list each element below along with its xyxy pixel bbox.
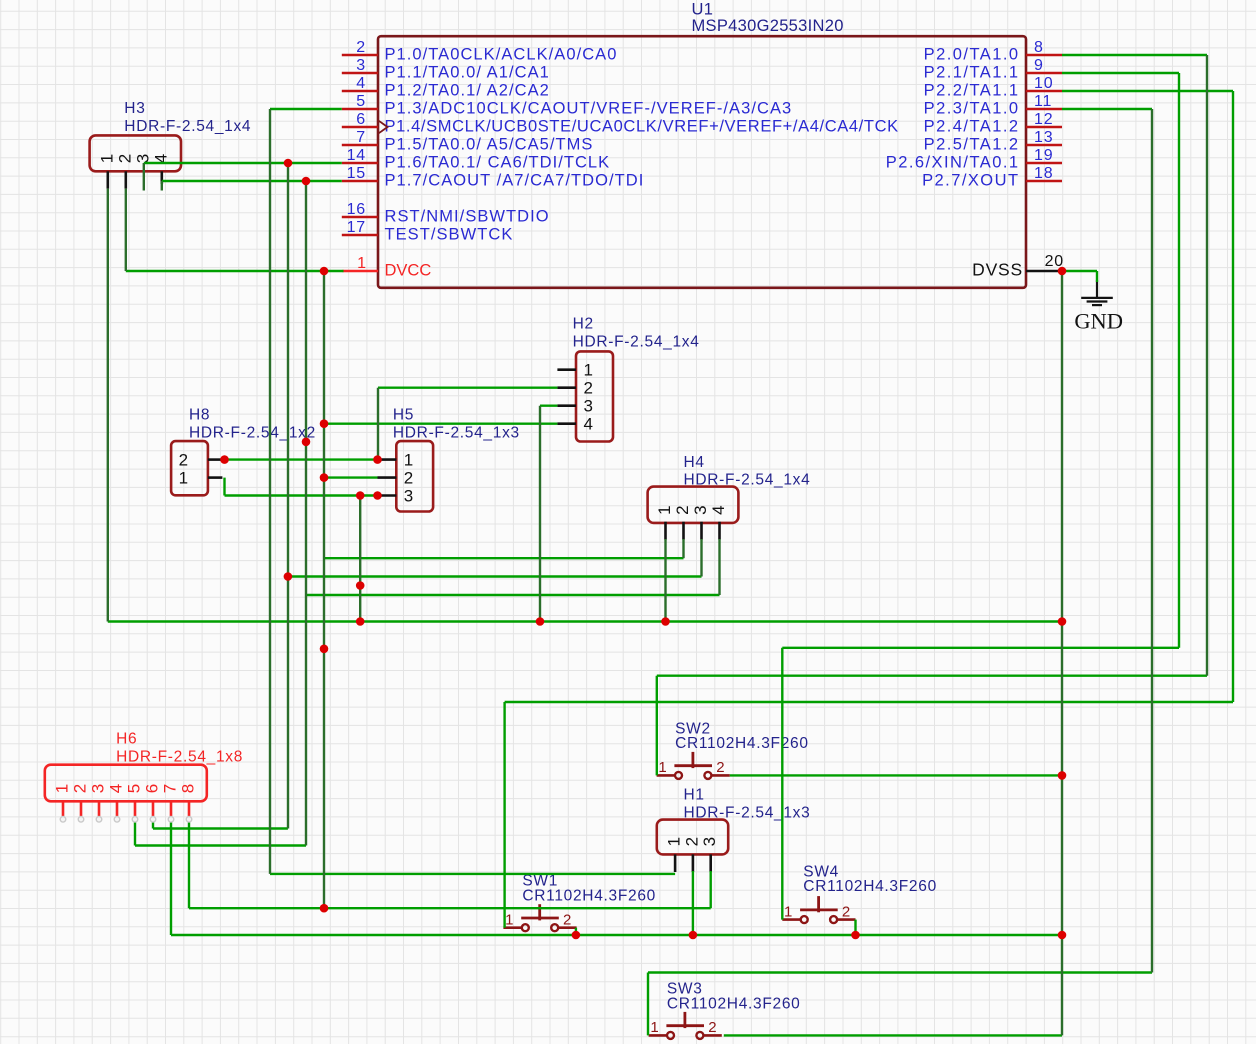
H6 pin 5 end marker (132, 817, 138, 823)
wire U1.P9 to SW4.1 run (782, 647, 1179, 649)
wire H2.3 jog (540, 405, 557, 407)
svg-text:1: 1 (404, 451, 413, 470)
junction GND bus / H1.2 (689, 931, 698, 940)
svg-text:4: 4 (584, 415, 593, 434)
wire bus net A (H3.1/H2.3/H4.1/DVSS) (108, 620, 1062, 622)
switch SW4 bridge bar (800, 909, 838, 912)
wire H6.6 run (153, 827, 288, 829)
svg-text:P2.1/TA1.1: P2.1/TA1.1 (924, 64, 1020, 82)
svg-text:H4: H4 (684, 454, 705, 471)
wire vertical H5.3 to bus A (359, 496, 361, 622)
U1 pin 4 stub (342, 90, 378, 93)
U1 pin 11 stub (1026, 108, 1062, 111)
U1 pin 6 stub (342, 126, 378, 129)
H5 pin 3 stub (378, 494, 397, 497)
svg-text:2: 2 (71, 784, 90, 793)
svg-text:H1: H1 (684, 786, 705, 803)
svg-text:4: 4 (709, 505, 728, 514)
svg-text:2: 2 (115, 154, 134, 163)
svg-text:HDR-F-2.54_1x4: HDR-F-2.54_1x4 (124, 118, 251, 135)
svg-text:CR1102H4.3F260: CR1102H4.3F260 (675, 735, 809, 752)
switch SW4 actuator (817, 896, 820, 912)
svg-text:HDR-F-2.54_1x8: HDR-F-2.54_1x8 (116, 748, 243, 765)
H6 pin 4 end marker (114, 817, 120, 823)
svg-text:1: 1 (179, 469, 188, 488)
svg-text:P1.1/TA0.0/ A1/CA1: P1.1/TA0.0/ A1/CA1 (385, 64, 550, 82)
wire GND stem drop (1096, 271, 1098, 282)
svg-text:12: 12 (1034, 111, 1053, 128)
wire H4.4 drop (718, 539, 720, 595)
svg-text:P2.0/TA1.0: P2.0/TA1.0 (924, 46, 1020, 64)
junction H2.4 on DVCC vertical (320, 419, 329, 428)
junction U1.P15/H3 net (302, 177, 311, 186)
junction SW2.2 / DVSS vertical (1058, 771, 1067, 780)
svg-text:11: 11 (1034, 93, 1052, 110)
H6 pin 4 stub (116, 801, 119, 816)
wire vertical U1.P14/H4.3/H6.6 (287, 163, 289, 829)
wire U1.P8 to SW2.1 run (657, 675, 1207, 677)
svg-text:P2.3/TA1.0: P2.3/TA1.0 (924, 100, 1020, 118)
H2 pin 2 stub (557, 386, 576, 389)
U1 pin 6 clock arrow (379, 121, 388, 133)
wire H6.6 drop (152, 817, 154, 829)
H6 pin 3 stub (98, 801, 101, 816)
svg-text:2: 2 (356, 39, 366, 56)
wire H8.1 corner drop (223, 478, 225, 496)
H3 pin 4 stub (161, 171, 164, 184)
svg-text:1: 1 (357, 255, 366, 272)
wire DVCC branch to H5.2 (324, 476, 378, 478)
wire SW4.1 drop (781, 648, 783, 920)
U1 pin 19 stub (1026, 162, 1062, 165)
svg-text:RST/NMI/SBWTDIO: RST/NMI/SBWTDIO (385, 208, 550, 226)
U1 pin 3 stub (342, 72, 378, 75)
svg-text:1: 1 (584, 361, 593, 380)
svg-text:4: 4 (356, 75, 366, 92)
H2 pin 4 stub (557, 422, 576, 425)
connector H8 body (171, 441, 208, 495)
svg-text:GND: GND (1074, 309, 1123, 334)
switch SW2 pin 1 stub (657, 774, 675, 777)
wire H4.3 row (288, 575, 702, 577)
svg-text:8: 8 (1034, 39, 1044, 56)
wire net U1.P5 row (270, 108, 342, 110)
wire H2.4 row (324, 423, 557, 425)
junction H5.3 branch (356, 491, 365, 500)
svg-text:3: 3 (89, 784, 108, 793)
junction GND bus / SW1.2 (572, 931, 581, 940)
junction bus A / H5.3 vertical (356, 617, 365, 626)
wire H3.3 tail (143, 163, 145, 191)
svg-text:CR1102H4.3F260: CR1102H4.3F260 (522, 887, 656, 904)
wire H6.5 run (135, 844, 306, 846)
junction U1.P14/H3 net (284, 159, 293, 168)
H4 pin 3 stub (700, 522, 703, 540)
connector H2 body (576, 351, 613, 441)
wire vertical U1.P11 to SW3 run (1151, 109, 1153, 973)
wire net U1.P8 row (1062, 54, 1207, 56)
svg-text:P1.2/TA0.1/ A2/CA2: P1.2/TA0.1/ A2/CA2 (385, 82, 550, 100)
svg-text:P2.7/XOUT: P2.7/XOUT (922, 172, 1019, 190)
connector H1 body (657, 820, 728, 855)
wire vertical DVCC distribution (323, 271, 325, 908)
junction GND bus / DVSS vertical (1058, 931, 1067, 940)
switch SW4 contact circle 2 (830, 916, 837, 923)
svg-text:1: 1 (784, 903, 792, 920)
svg-text:H3: H3 (124, 100, 145, 117)
svg-text:14: 14 (347, 147, 366, 164)
junction H5.3 stub (373, 491, 382, 500)
switch SW4 pin 2 stub (837, 918, 855, 921)
wire H1.2 drop to GND bus (692, 871, 694, 935)
connector H4 body (648, 487, 739, 523)
svg-text:2: 2 (716, 759, 724, 776)
switch SW2 bridge bar (674, 764, 712, 767)
svg-text:P2.4/TA1.2: P2.4/TA1.2 (924, 118, 1020, 136)
U1 pin 12 stub (1026, 126, 1062, 129)
svg-text:1: 1 (655, 505, 674, 514)
connector H5 body (396, 441, 433, 511)
svg-text:MSP430G2553IN20: MSP430G2553IN20 (692, 17, 844, 35)
IC U1 MSP430G2553IN20 body (378, 36, 1026, 288)
junction DVCC row (320, 267, 329, 276)
svg-text:1: 1 (658, 759, 666, 776)
svg-text:6: 6 (356, 111, 366, 128)
ground symbol GND (1081, 280, 1113, 305)
wire SW2.2 to DVSS net (730, 774, 1062, 776)
switch SW1 contact circle 2 (551, 924, 558, 931)
svg-text:H8: H8 (189, 407, 210, 424)
wire SW4.2 drop to GND bus (854, 920, 856, 935)
junction H6.8 line / DVCC vertical (320, 904, 329, 913)
wire SW3.1 to U1.P11 run (648, 971, 1152, 973)
wire H3.1 drop to bus A (107, 189, 109, 622)
wire SW1.2 drop to GND bus (575, 928, 577, 935)
svg-text:5: 5 (356, 93, 366, 110)
switch SW1 pin 2 stub (558, 926, 576, 929)
U1 pin 7 stub (342, 144, 378, 147)
svg-text:19: 19 (1034, 147, 1053, 164)
wire H1.3 drop (710, 871, 712, 908)
wire vertical U1.P15/H4.4/H6.5 (305, 181, 307, 846)
switch SW1 pin 1 stub (503, 926, 521, 929)
H3 pin 2 stub (125, 171, 128, 188)
svg-text:3: 3 (404, 487, 413, 506)
svg-text:P1.4/SMCLK/UCB0STE/UCA0CLK/VRE: P1.4/SMCLK/UCB0STE/UCA0CLK/VREF+/VEREF+/… (385, 118, 899, 136)
wire net U1.P9 row (1062, 72, 1179, 74)
U1 pin 14 stub (342, 162, 378, 165)
H4 pin 2 stub (682, 522, 685, 540)
switch SW4 contact circle 1 (801, 916, 808, 923)
junction node on H5.3 vertical (356, 581, 365, 590)
H6 pin 8 end marker (186, 817, 192, 823)
svg-text:H2: H2 (573, 316, 594, 333)
wire H4.4 row (306, 594, 720, 596)
svg-text:P1.6/TA0.1/ CA6/TDI/TCLK: P1.6/TA0.1/ CA6/TDI/TCLK (385, 154, 611, 172)
H6 pin 8 stub (188, 801, 191, 816)
svg-text:DVSS: DVSS (972, 259, 1023, 279)
svg-text:4: 4 (107, 784, 126, 793)
H6 pin 7 end marker (168, 817, 174, 823)
wire H4.2 drop (682, 539, 684, 558)
junction H4.3 line start (284, 572, 293, 581)
H8 pin 2 stub (208, 458, 223, 461)
svg-text:2: 2 (682, 837, 701, 846)
U1 pin 15 stub (342, 180, 378, 183)
svg-text:2: 2 (708, 1019, 716, 1036)
switch SW3 contact circle 1 (667, 1032, 674, 1039)
wire DVSS to GND drop (1062, 270, 1097, 272)
U1 pin 16 stub (342, 216, 378, 219)
H6 pin 5 stub (134, 801, 137, 816)
H6 pin 1 end marker (60, 817, 66, 823)
junction bus A / DVSS vertical (1058, 617, 1067, 626)
svg-text:HDR-F-2.54_1x2: HDR-F-2.54_1x2 (189, 424, 316, 441)
switch SW3 pin 1 stub (649, 1034, 667, 1037)
svg-text:3: 3 (700, 837, 719, 846)
svg-text:DVCC: DVCC (385, 262, 432, 280)
svg-text:P2.5/TA1.2: P2.5/TA1.2 (924, 136, 1020, 154)
svg-text:15: 15 (347, 165, 366, 182)
svg-text:18: 18 (1034, 165, 1053, 182)
switch SW2 contact circle 2 (704, 772, 711, 779)
U1 pin 20 DVSS stub (1026, 270, 1062, 273)
H1 pin 2 stub (692, 854, 695, 872)
svg-text:H6: H6 (116, 731, 137, 748)
junction bus A / H4.1 (661, 617, 670, 626)
svg-text:HDR-F-2.54_1x3: HDR-F-2.54_1x3 (393, 424, 520, 441)
svg-text:8: 8 (179, 784, 198, 793)
junction bus A / H2.3 vertical (536, 617, 545, 626)
switch SW4 pin 1 stub (782, 918, 800, 921)
svg-text:5: 5 (125, 784, 144, 793)
svg-text:1: 1 (665, 837, 684, 846)
U1 pin 5 stub (342, 108, 378, 111)
svg-text:17: 17 (347, 219, 366, 236)
switch SW3 pin 2 stub (703, 1034, 721, 1037)
switch SW3 contact circle 2 (696, 1032, 703, 1039)
switch SW2 actuator (692, 752, 695, 768)
svg-text:2: 2 (563, 912, 571, 929)
H6 pin 6 end marker (150, 817, 156, 823)
svg-text:P2.6/XIN/TA0.1: P2.6/XIN/TA0.1 (886, 154, 1020, 172)
wire H3.4 tail (161, 181, 163, 191)
wire H6.7 drop to GND bus (170, 817, 172, 935)
wire U1.P10 to SW1.1 run (505, 701, 1233, 703)
svg-text:U1: U1 (692, 0, 714, 18)
svg-text:1: 1 (650, 1019, 658, 1036)
wire H6.8 to H1.3 run (189, 907, 711, 909)
wire H4.1 drop to bus A (664, 539, 666, 622)
svg-text:10: 10 (1034, 75, 1053, 92)
svg-text:2: 2 (584, 379, 593, 398)
wire net U1.P15 to H3.4 (162, 180, 342, 182)
H4 pin 1 stub (664, 522, 667, 540)
junction H5.1 stub (373, 455, 382, 464)
svg-text:P1.0/TA0CLK/ACLK/A0/CA0: P1.0/TA0CLK/ACLK/A0/CA0 (385, 46, 618, 64)
H4 pin 4 stub (718, 522, 721, 540)
wire net U1.P10 row (1062, 90, 1233, 92)
svg-text:2: 2 (404, 469, 413, 488)
svg-text:P1.7/CAOUT /A7/CA7/TDO/TDI: P1.7/CAOUT /A7/CA7/TDO/TDI (385, 172, 645, 190)
junction DVSS pin (1058, 267, 1067, 276)
svg-text:1: 1 (97, 154, 116, 163)
switch SW1 contact circle 1 (522, 924, 529, 931)
U1 pin 10 stub (1026, 90, 1062, 93)
H6 pin 3 end marker (96, 817, 102, 823)
switch SW2 contact circle 1 (675, 772, 682, 779)
junction node on DVCC vertical (320, 645, 329, 654)
junction H8.2 stub (220, 455, 229, 464)
wire vertical U1.P8 to SW2 run (1206, 55, 1208, 676)
switch SW1 bridge bar (521, 917, 559, 920)
H5 pin 2 stub (378, 476, 397, 479)
H6 pin 2 stub (80, 801, 83, 816)
connector H3 body (90, 135, 181, 171)
wire vertical U1.P9 to SW4 run (1178, 73, 1180, 648)
U1 pin 9 stub (1026, 72, 1062, 75)
H3 pin 1 stub (107, 171, 110, 188)
wire vertical DVSS/GND main (1061, 271, 1063, 1035)
H6 pin 1 stub (62, 801, 65, 816)
wire H8.2 to H5.1 (222, 458, 377, 460)
wire U1.P5 to H1.1 run (270, 873, 675, 875)
svg-text:3: 3 (356, 57, 366, 74)
H6 pin 7 stub (170, 801, 173, 816)
svg-text:HDR-F-2.54_1x4: HDR-F-2.54_1x4 (573, 333, 700, 350)
svg-text:13: 13 (1034, 129, 1053, 146)
U1 pin 1 DVCC stub (highlighted) (343, 270, 379, 273)
switch SW1 actuator (538, 904, 541, 920)
U1 pin 8 stub (1026, 54, 1062, 57)
svg-text:TEST/SBWTCK: TEST/SBWTCK (385, 226, 514, 244)
svg-text:16: 16 (347, 201, 366, 218)
wire H2.2 row (378, 387, 557, 389)
wire H8.1 to H5.3 (225, 494, 378, 496)
wire vertical U1.P10 to SW1 run (1232, 91, 1234, 702)
wire vertical U1.P5/H1.1 (269, 109, 271, 874)
svg-text:1: 1 (505, 912, 513, 929)
switch SW3 bridge bar (666, 1024, 704, 1027)
svg-text:2: 2 (842, 903, 850, 920)
H1 pin 1 stub (674, 854, 677, 872)
U1 pin 2 stub (342, 54, 378, 57)
switch SW2 pin 2 stub (711, 774, 729, 777)
svg-text:P1.5/TA0.0/ A5/CA5/TMS: P1.5/TA0.0/ A5/CA5/TMS (385, 136, 594, 154)
svg-text:CR1102H4.3F260: CR1102H4.3F260 (803, 878, 937, 895)
svg-text:H5: H5 (393, 407, 414, 424)
svg-text:9: 9 (1034, 57, 1044, 74)
U1 pin 13 stub (1026, 144, 1062, 147)
svg-text:2: 2 (179, 451, 188, 470)
switch SW3 actuator (684, 1012, 687, 1028)
svg-text:2: 2 (673, 505, 692, 514)
svg-text:P2.2/TA1.1: P2.2/TA1.1 (924, 82, 1020, 100)
U1 pin 17 stub (342, 234, 378, 237)
wire vertical H2.3 to bus A (539, 406, 541, 622)
wire net DVCC row (126, 270, 344, 272)
svg-text:P1.3/ADC10CLK/CAOUT/VREF-/VERE: P1.3/ADC10CLK/CAOUT/VREF-/VEREF-/A3/CA3 (385, 100, 793, 118)
junction GND bus / SW4.2 (851, 931, 860, 940)
H2 pin 1 stub (557, 368, 576, 371)
H8 pin 1 stub (208, 476, 223, 479)
svg-text:7: 7 (356, 129, 366, 146)
wire net U1.P11 row (1062, 108, 1152, 110)
wire SW3.1 drop (647, 973, 649, 1036)
svg-text:6: 6 (143, 784, 162, 793)
svg-text:CR1102H4.3F260: CR1102H4.3F260 (667, 995, 801, 1012)
H5 pin 1 stub (378, 458, 397, 461)
H1 pin 3 stub (709, 854, 712, 872)
wire vertical H2.2 to H5.1 (377, 388, 379, 460)
wire SW1.1 drop (503, 702, 505, 928)
connector H6 body (highlighted) (45, 765, 207, 802)
wire H4.2 row (325, 557, 684, 559)
wire net U1.P14 to H3.3 (144, 162, 342, 164)
svg-text:7: 7 (161, 784, 180, 793)
wire SW3.2 to DVSS net (724, 1034, 1062, 1036)
wire bottom bus net GND (171, 934, 1062, 936)
svg-text:3: 3 (691, 505, 710, 514)
wire H3.2 drop to DVCC row (125, 189, 127, 271)
wire H6.5 drop (134, 817, 136, 846)
junction H5.2 on DVCC vertical (320, 473, 329, 482)
H6 pin 6 stub (152, 801, 155, 816)
svg-text:3: 3 (584, 397, 593, 416)
H2 pin 3 stub (557, 404, 576, 407)
wire SW2.1 drop (656, 676, 658, 776)
junction node on P15 vertical (302, 438, 311, 447)
U1 pin 18 stub (1026, 180, 1062, 183)
wire H4.3 drop (700, 539, 702, 577)
H6 pin 2 end marker (78, 817, 84, 823)
svg-text:1: 1 (53, 784, 72, 793)
wire H6.8 drop (188, 817, 190, 908)
